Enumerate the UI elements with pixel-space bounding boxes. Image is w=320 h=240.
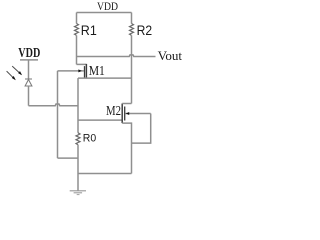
arrow M1 gate	[78, 69, 81, 72]
resistor R2	[130, 24, 134, 36]
wire M2 gate lead	[126, 113, 151, 115]
svg-text:VDD: VDD	[18, 46, 40, 61]
svg-text:M1: M1	[89, 63, 105, 78]
wire R0 to M2	[78, 119, 122, 121]
wire R2 bottom to M2 drain	[131, 35, 133, 103]
wire M2 drain stub	[122, 103, 131, 105]
wire M1 source stub	[78, 77, 132, 79]
ground	[70, 191, 86, 195]
wire top VDD rail	[77, 12, 132, 14]
svg-text:R0: R0	[83, 133, 96, 145]
photodiode D1	[25, 79, 32, 86]
wire Vout line with hop over R2 lead	[77, 55, 156, 57]
wire M1 drain stub	[77, 63, 87, 65]
resistor R0	[76, 133, 80, 145]
arrow M2 gate	[126, 112, 130, 115]
wire R2 top lead	[131, 13, 133, 24]
svg-text:Vout: Vout	[158, 49, 183, 63]
svg-text:M2: M2	[106, 103, 121, 118]
wire R0 bottom lead	[77, 145, 79, 191]
VDD bar left	[20, 59, 38, 61]
wire M2 source stub	[122, 123, 131, 173]
wire R0 top lead	[77, 78, 79, 133]
wire photodiode top lead	[28, 60, 30, 79]
wire gate riser	[57, 71, 59, 158]
wire bottom rail to M2 source	[78, 173, 132, 175]
svg-text:R2: R2	[137, 22, 153, 38]
wire M1 gate lead	[58, 70, 85, 72]
transistor M2	[122, 104, 125, 124]
light arrow 1	[12, 66, 22, 75]
wire M2 gate feedback	[132, 114, 151, 144]
wire R1 top lead	[76, 13, 78, 24]
resistor R1	[75, 24, 79, 36]
light arrow 2	[7, 71, 16, 80]
wire R1 bottom lead	[76, 35, 78, 64]
wire photodiode bottom lead	[28, 86, 30, 106]
wire anode to R0 branch with hop over gate riser	[29, 104, 79, 106]
svg-text:VDD: VDD	[97, 1, 118, 13]
svg-text:R1: R1	[81, 22, 97, 38]
wire riser bottom horizontal	[58, 157, 79, 159]
transistor M1	[85, 64, 87, 79]
